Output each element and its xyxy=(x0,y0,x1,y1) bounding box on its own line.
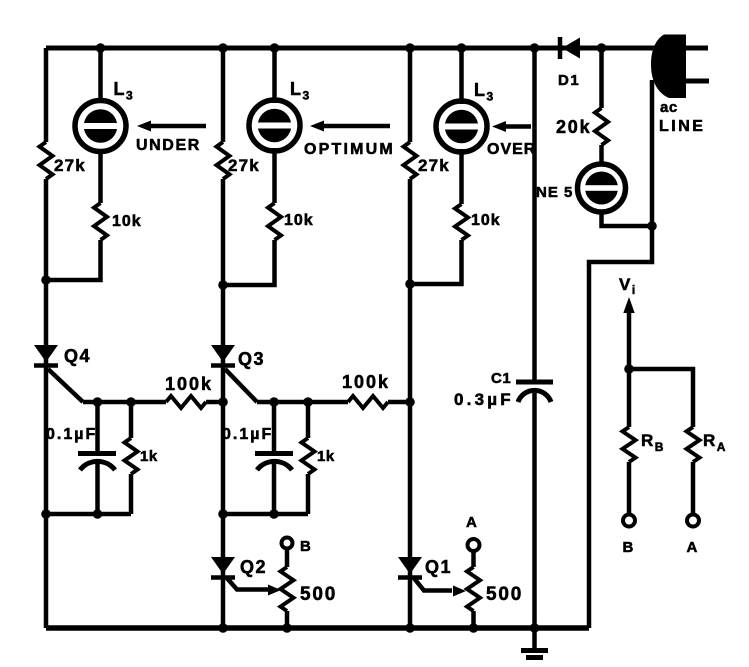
svg-text:UNDER: UNDER xyxy=(136,137,201,154)
terminal circle A xyxy=(687,515,699,527)
junction rail2 / bottom rail xyxy=(218,623,228,633)
wire: Q4 gate node xyxy=(83,400,166,405)
junction cap1 top xyxy=(93,397,103,407)
wire: Q3 gate node xyxy=(257,400,348,405)
terminal circle A (pot) xyxy=(468,539,480,551)
wire: 100k to rail 3 xyxy=(388,400,410,405)
svg-text:10k: 10k xyxy=(284,212,314,229)
svg-text:B: B xyxy=(300,538,311,555)
wire: RB branch top xyxy=(627,369,632,427)
capacitor 0.1uF (stage 1) xyxy=(78,454,116,471)
resistor 100k (stage 1) xyxy=(166,396,206,408)
thyristor Q4 xyxy=(34,345,58,366)
junction top/rail2 xyxy=(218,43,228,53)
gate wire Q1 with wiper arrow xyxy=(413,577,452,591)
junction rail1 bottom tie xyxy=(41,509,51,519)
svg-text:500: 500 xyxy=(486,584,523,605)
junction cap1 bottom xyxy=(93,509,103,519)
wire: C1 column upper xyxy=(532,48,537,382)
wire: lamp L3 under drop xyxy=(98,48,103,103)
svg-text:500: 500 xyxy=(300,584,337,605)
capacitor C1 0.3uF xyxy=(516,382,553,402)
svg-text:OVER: OVER xyxy=(487,141,536,158)
wire: lamp1 to 10k xyxy=(98,149,103,203)
svg-text:10k: 10k xyxy=(112,213,142,230)
wire: lamp2 to 10k xyxy=(272,148,277,203)
junction 100k/rail2 xyxy=(218,397,228,407)
resistor 10k (stage 1) xyxy=(94,203,107,240)
terminal circle B xyxy=(623,515,635,527)
wire: 10k to rail 1 xyxy=(46,240,101,280)
lamp L3 (OPTIMUM) xyxy=(249,100,300,151)
svg-text:RA: RA xyxy=(703,431,726,454)
junction top/lamp1 xyxy=(96,43,106,53)
wire: NE5 bottom to plug column xyxy=(602,210,653,226)
plug prong lower xyxy=(686,79,709,84)
svg-text:Q2: Q2 xyxy=(240,557,267,577)
wire: left rail (lower) xyxy=(44,179,49,628)
wire: top supply rail xyxy=(46,46,655,51)
wire: 10k to rail 2 xyxy=(223,240,275,285)
svg-text:0.3µF: 0.3µF xyxy=(454,390,514,409)
wire: RB to terminal B xyxy=(627,462,632,514)
junction rail1/10k xyxy=(41,275,51,285)
thyristor Q1 xyxy=(398,557,422,578)
junction Vi node xyxy=(624,364,634,374)
wire: plug to join column xyxy=(589,80,652,628)
svg-text:OPTIMUM: OPTIMUM xyxy=(304,141,395,158)
junction 1k top (stage2) xyxy=(303,397,313,407)
svg-text:27k: 27k xyxy=(54,156,86,175)
wire: lamp L3 optimum drop xyxy=(272,48,277,103)
svg-text:1k: 1k xyxy=(140,448,158,465)
wire: rail 3 lower xyxy=(408,179,413,628)
junction top/C1 xyxy=(530,43,540,53)
svg-text:Q1: Q1 xyxy=(425,557,452,577)
wire: pot B bottom xyxy=(285,611,290,628)
potentiometer 500 (A) xyxy=(467,567,480,611)
svg-text:Q4: Q4 xyxy=(64,346,91,366)
junction rail3 / bottom rail xyxy=(405,623,415,633)
svg-text:B: B xyxy=(623,539,634,556)
wire: lamp3 to 10k xyxy=(459,149,464,204)
svg-text:27k: 27k xyxy=(228,156,260,175)
gate wire Q2 with wiper arrow xyxy=(226,577,268,590)
gate wire Q3 xyxy=(225,369,257,402)
wire: rail 2 upper xyxy=(221,48,226,142)
ground symbol xyxy=(521,628,548,658)
ac line plug body xyxy=(651,35,686,99)
diode D1 xyxy=(560,37,580,59)
svg-text:A: A xyxy=(687,539,698,556)
wire: C1 column lower xyxy=(532,393,537,628)
svg-text:100k: 100k xyxy=(165,374,213,394)
svg-text:NE 5: NE 5 xyxy=(536,184,573,201)
svg-text:C1: C1 xyxy=(491,370,511,387)
svg-text:10k: 10k xyxy=(471,212,501,229)
arrow to OVER lamp xyxy=(492,121,531,132)
resistor 100k (stage 2) xyxy=(348,396,388,408)
junction top/20k xyxy=(597,43,607,53)
resistor 1k (stage 2) xyxy=(302,438,315,474)
wire: 20k drop xyxy=(599,48,604,108)
junction C1 / bottom rail (ground node) xyxy=(530,623,540,633)
arrow to UNDER lamp xyxy=(137,121,206,132)
svg-text:L3: L3 xyxy=(290,79,310,103)
wire: Vi node to RA branch xyxy=(629,369,693,427)
potentiometer 500 (B) xyxy=(281,567,294,611)
resistor 20k xyxy=(595,108,608,145)
wire: left rail (upper) xyxy=(44,48,49,142)
svg-text:Vi: Vi xyxy=(619,275,635,297)
arrow to OPTIMUM lamp xyxy=(310,121,390,132)
svg-text:Q3: Q3 xyxy=(238,349,265,369)
wire: 1k drop (stage 1) xyxy=(129,402,134,438)
svg-text:20k: 20k xyxy=(556,117,591,137)
wire: rail 2 lower xyxy=(221,179,226,628)
resistor 27k (stage 2) xyxy=(217,142,230,179)
node Vi input arrow xyxy=(623,297,634,369)
svg-text:L3: L3 xyxy=(114,79,134,103)
junction cap2 bottom xyxy=(269,509,279,519)
resistor 1k (stage 1) xyxy=(125,438,138,474)
wire: 100k to rail 2 xyxy=(206,400,223,405)
junction cap2 top xyxy=(269,397,279,407)
junction rail2/10k xyxy=(218,280,228,290)
wire: 10k to rail 3 xyxy=(410,240,462,284)
terminal circle B (pot) xyxy=(282,538,293,549)
junction top/lamp3 xyxy=(457,43,467,53)
neon lamp NE 5 xyxy=(578,164,626,212)
thyristor Q3 xyxy=(211,345,235,366)
lamp L3 (OVER) xyxy=(436,101,487,152)
resistor 27k (stage 1) xyxy=(40,142,53,179)
lamp L3 (UNDER) xyxy=(75,101,126,152)
resistor RB xyxy=(623,427,636,462)
wire: cap1 drop xyxy=(95,402,100,451)
junction top/rail3 xyxy=(405,43,415,53)
svg-text:A: A xyxy=(466,514,477,531)
gate wire Q4 xyxy=(48,369,83,402)
junction 1k top (stage1) xyxy=(126,397,136,407)
svg-text:27k: 27k xyxy=(418,156,450,175)
wire: pot A bottom xyxy=(471,611,476,628)
wire: stage1 bottom tie xyxy=(46,512,131,517)
wire: 1k bottom (stage 2) xyxy=(306,474,311,514)
resistor 27k (stage 3) xyxy=(404,142,417,179)
resistor 10k (stage 3) xyxy=(455,204,468,240)
junction rail2 bottom tie xyxy=(218,509,228,519)
svg-text:RB: RB xyxy=(641,431,664,454)
junction pot A / bottom rail xyxy=(469,623,479,633)
wire: pot A top xyxy=(471,551,476,567)
wire: bottom ground rail xyxy=(46,625,589,631)
svg-text:ac: ac xyxy=(660,99,678,116)
junction pot B / bottom rail xyxy=(282,623,292,633)
resistor RA xyxy=(687,427,700,462)
junction top/lamp2 xyxy=(270,43,280,53)
svg-text:LINE: LINE xyxy=(659,118,705,135)
capacitor 0.1uF (stage 2) xyxy=(255,454,293,471)
wire: cap1 bottom xyxy=(95,461,100,514)
svg-text:1k: 1k xyxy=(317,448,335,465)
junction 100k/rail3 xyxy=(405,397,415,407)
svg-text:D1: D1 xyxy=(558,72,580,89)
wire: RA to terminal A xyxy=(691,462,696,514)
wire: 1k bottom (stage 1) xyxy=(129,474,134,514)
svg-text:0.1µF: 0.1µF xyxy=(222,426,273,443)
resistor 10k (stage 2) xyxy=(268,203,281,240)
wire: 1k drop (stage 2) xyxy=(306,402,311,438)
wire: stage2 bottom tie xyxy=(223,512,308,517)
wire: 20k to NE5 xyxy=(599,145,604,166)
wire: pot B top xyxy=(285,549,290,567)
wire: rail 3 upper xyxy=(408,48,413,142)
wire: lamp L3 over drop xyxy=(459,48,464,104)
svg-text:L3: L3 xyxy=(474,80,494,104)
svg-text:0.1µF: 0.1µF xyxy=(46,426,97,443)
thyristor Q2 xyxy=(211,557,235,578)
svg-text:100k: 100k xyxy=(342,372,390,392)
wire: cap2 drop xyxy=(272,402,277,451)
wire: cap2 bottom xyxy=(272,461,277,514)
plug prong upper xyxy=(686,46,708,51)
junction rail3/10k xyxy=(405,279,415,289)
junction NE5 / plug column xyxy=(647,221,657,231)
